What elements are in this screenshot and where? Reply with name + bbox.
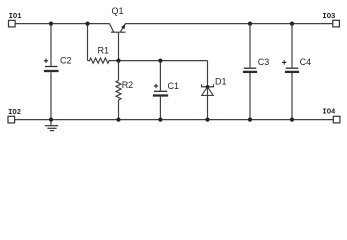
svg-text:IO1: IO1 (9, 13, 23, 21)
svg-text:IO3: IO3 (322, 13, 335, 21)
svg-text:D1: D1 (215, 77, 227, 87)
svg-text:C4: C4 (300, 57, 312, 67)
svg-text:C1: C1 (168, 81, 180, 91)
svg-text:R1: R1 (98, 46, 110, 56)
svg-text:IO2: IO2 (8, 109, 21, 117)
svg-text:Q1: Q1 (112, 6, 124, 16)
svg-text:C2: C2 (60, 56, 72, 66)
svg-text:R2: R2 (122, 80, 134, 90)
svg-text:C3: C3 (258, 57, 270, 67)
svg-text:IO4: IO4 (322, 109, 336, 117)
